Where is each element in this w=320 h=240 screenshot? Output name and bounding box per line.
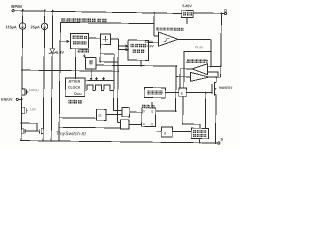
svg-text:1.0V+U: 1.0V+U	[29, 88, 38, 92]
svg-text:1.0V: 1.0V	[30, 107, 36, 111]
svg-text:JITTER: JITTER	[68, 80, 81, 84]
svg-text:EN/UV: EN/UV	[1, 98, 13, 102]
svg-text:CLOCK: CLOCK	[68, 86, 81, 90]
svg-text:BP/M: BP/M	[11, 4, 22, 9]
svg-text:4.9V: 4.9V	[147, 44, 155, 48]
svg-text:&: &	[164, 131, 167, 135]
svg-text:R: R	[143, 122, 146, 126]
svg-text:DMAX: DMAX	[74, 92, 82, 96]
svg-text:S: S	[220, 138, 223, 142]
svg-text:115µA: 115µA	[6, 25, 17, 29]
svg-text:CL,SET: CL,SET	[195, 45, 204, 49]
svg-text:Q: Q	[151, 122, 154, 126]
svg-text:TinySwitch-III: TinySwitch-III	[56, 131, 87, 137]
svg-text:≥1: ≥1	[98, 113, 102, 117]
svg-text:D: D	[224, 9, 227, 13]
svg-text:S: S	[143, 109, 145, 113]
svg-text:Q: Q	[151, 109, 154, 113]
svg-text:5.85V: 5.85V	[182, 4, 192, 8]
svg-text:25µA: 25µA	[31, 25, 40, 29]
svg-text:MOSFET: MOSFET	[219, 86, 232, 90]
